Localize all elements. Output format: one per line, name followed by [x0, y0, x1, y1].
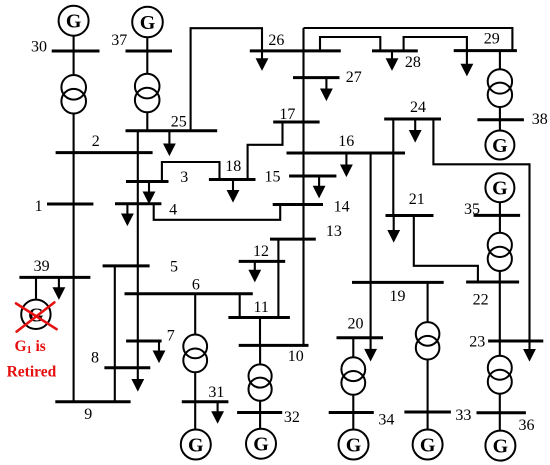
svg-text:G: G [66, 11, 82, 33]
svg-text:28: 28 [405, 54, 421, 71]
svg-text:4: 4 [169, 202, 177, 219]
svg-text:37: 37 [111, 32, 127, 49]
svg-text:3: 3 [180, 169, 188, 186]
svg-text:15: 15 [265, 169, 281, 186]
svg-text:G: G [253, 434, 269, 456]
svg-text:13: 13 [326, 223, 342, 240]
svg-text:21: 21 [409, 191, 425, 208]
svg-text:8: 8 [91, 350, 99, 367]
svg-text:9: 9 [84, 406, 92, 423]
svg-text:18: 18 [225, 158, 241, 175]
svg-text:23: 23 [469, 334, 485, 351]
svg-text:G: G [493, 436, 509, 458]
svg-text:6: 6 [192, 277, 200, 294]
svg-text:G: G [492, 135, 508, 157]
svg-text:Retired: Retired [7, 363, 57, 380]
svg-text:2: 2 [92, 133, 100, 150]
svg-text:38: 38 [532, 111, 548, 128]
svg-text:12: 12 [253, 243, 269, 260]
svg-text:7: 7 [167, 328, 175, 345]
svg-text:32: 32 [284, 409, 300, 426]
svg-text:14: 14 [334, 199, 350, 216]
svg-text:25: 25 [171, 114, 187, 131]
svg-text:11: 11 [254, 299, 269, 316]
svg-text:24: 24 [410, 99, 426, 116]
svg-text:1: 1 [35, 198, 43, 215]
svg-text:26: 26 [268, 32, 284, 49]
svg-text:34: 34 [378, 412, 394, 429]
svg-text:22: 22 [473, 292, 489, 309]
svg-text:35: 35 [464, 201, 480, 218]
svg-text:19: 19 [390, 288, 406, 305]
svg-text:G: G [420, 435, 436, 457]
svg-text:39: 39 [34, 258, 50, 275]
svg-text:5: 5 [170, 259, 178, 276]
svg-text:29: 29 [484, 31, 500, 48]
svg-text:30: 30 [31, 39, 47, 56]
svg-text:36: 36 [519, 417, 535, 434]
svg-text:16: 16 [338, 133, 354, 150]
svg-text:31: 31 [208, 384, 224, 401]
svg-text:10: 10 [288, 348, 304, 365]
svg-text:17: 17 [279, 106, 295, 123]
svg-text:27: 27 [346, 69, 362, 86]
svg-text:G: G [140, 12, 156, 34]
svg-text:G: G [188, 435, 204, 457]
svg-text:G: G [492, 178, 508, 200]
svg-text:20: 20 [348, 316, 364, 333]
svg-text:G: G [346, 435, 362, 457]
svg-text:33: 33 [455, 407, 471, 424]
